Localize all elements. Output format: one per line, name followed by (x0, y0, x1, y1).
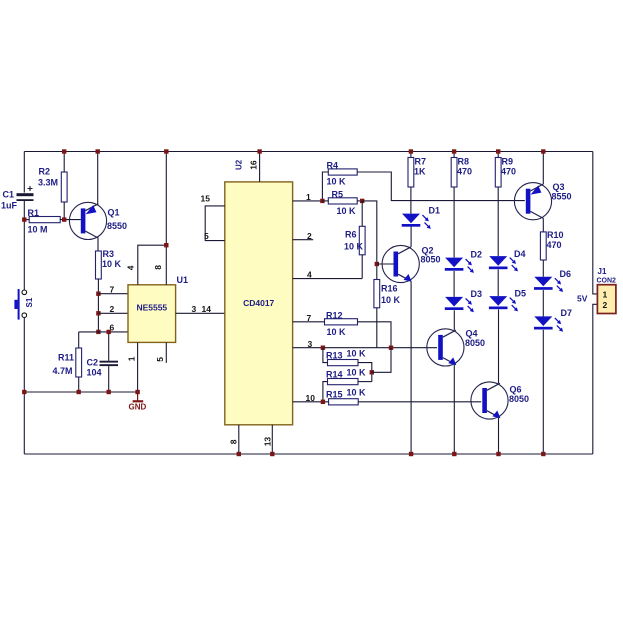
wire R16 bottom lead (376, 308, 378, 348)
wire CD4017 pin3 to Q4 base (293, 347, 437, 349)
wire Q6 emitter to bottom rail (498, 418, 500, 454)
wire D5 to Q6 collector (498, 310, 500, 384)
wire ground rail (24, 391, 137, 393)
wire R10 bottom to D6 (542, 260, 544, 277)
svg-text:5: 5 (155, 357, 165, 362)
node pin3 R13 junction (321, 346, 325, 350)
svg-text:10 M: 10 M (28, 225, 48, 235)
wire R5 node to Q2 base column (362, 201, 377, 280)
wire left border upper segment (23, 152, 25, 193)
node pin1-R4-R5 junction (320, 199, 324, 203)
svg-text:4.7M: 4.7M (53, 366, 73, 376)
svg-text:1: 1 (127, 356, 137, 361)
svg-text:Q1: Q1 (108, 208, 120, 218)
node pin8 rail junction (164, 149, 168, 153)
svg-text:7: 7 (110, 285, 115, 295)
node R2 top rail junction (62, 149, 66, 153)
wire R5 right lead (357, 200, 362, 202)
diode D4 (489, 256, 518, 271)
wire NE5555 pin3 to CD4017 pin14 (176, 312, 225, 314)
svg-text:U2: U2 (235, 159, 244, 170)
svg-text:D3: D3 (471, 289, 483, 299)
svg-text:10 K: 10 K (347, 349, 367, 359)
wire CD4017 pin4 (293, 278, 363, 280)
resistor R15 (329, 399, 359, 405)
wire R12 right lead (358, 322, 392, 348)
svg-text:2: 2 (307, 231, 312, 241)
node Q1 rail junction (96, 149, 100, 153)
node pin13 bottom junction (270, 452, 274, 456)
node Q2 emitter bottom junction (409, 452, 413, 456)
wire NE5555 pin2 (98, 312, 128, 314)
ground symbol (133, 392, 144, 401)
svg-text:2: 2 (110, 304, 115, 314)
svg-text:D2: D2 (471, 250, 483, 260)
diode D3 (445, 297, 474, 312)
svg-text:GND: GND (129, 403, 147, 412)
wire R8 bottom to D2 (453, 187, 455, 258)
op-amp U1 NE5555 body (128, 285, 176, 343)
wire R11 top lead (78, 332, 80, 348)
svg-text:U1: U1 (177, 275, 189, 285)
wire R9 top lead (497, 152, 499, 158)
capacitor C1 (17, 186, 34, 201)
svg-text:5V: 5V (577, 294, 588, 304)
node pin3 branch junction (389, 346, 393, 350)
wire R4 right to Q3 base (357, 172, 525, 201)
wire R14 right lead (358, 381, 372, 383)
resistor R5 (328, 198, 357, 204)
resistor R13 (328, 360, 359, 366)
node Q2 base junction (375, 262, 379, 266)
wire left border lower segment (23, 317, 25, 454)
svg-text:10 K: 10 K (327, 327, 347, 337)
wire R11 bottom lead (78, 377, 80, 392)
node Q6 emitter bottom junction (496, 452, 500, 456)
wire R1 right lead / Q1 base wire (60, 219, 81, 221)
svg-text:D5: D5 (515, 289, 527, 299)
wire R8 top lead (453, 152, 455, 158)
svg-text:R16: R16 (381, 284, 398, 294)
transistor Q2 (382, 245, 419, 282)
svg-text:7: 7 (307, 313, 312, 323)
svg-text:4: 4 (307, 270, 312, 280)
svg-text:CD4017: CD4017 (243, 298, 274, 308)
wire CD4017 pin1 (293, 200, 323, 202)
resistor R10 (540, 232, 546, 260)
wire CD4017 pin13 to bottom rail (271, 425, 273, 454)
wire R1 left lead (24, 219, 29, 221)
wire Q1 emitter to top rail (97, 152, 99, 204)
node Q3 rail junction (541, 149, 545, 153)
svg-text:16: 16 (249, 160, 259, 170)
svg-text:R8: R8 (458, 157, 470, 167)
diode D7 (534, 316, 563, 331)
svg-text:3: 3 (192, 304, 197, 314)
node pin7 junction (96, 292, 100, 296)
svg-text:D7: D7 (561, 308, 573, 318)
svg-text:D4: D4 (514, 249, 526, 259)
svg-text:470: 470 (457, 167, 472, 177)
svg-text:Q6: Q6 (510, 385, 522, 395)
node R5 right junction (360, 199, 364, 203)
wire NE5555 pin8 to rail (165, 152, 167, 285)
counter U2 CD4017 body (225, 182, 293, 425)
svg-text:R10: R10 (547, 230, 564, 240)
wire left border middle segment (23, 201, 25, 290)
svg-text:8: 8 (153, 265, 163, 270)
node pin1 ground junction (135, 390, 139, 394)
wire NE5555 pin7 (98, 293, 128, 295)
diode D5 (489, 296, 518, 311)
svg-text:R11: R11 (58, 353, 74, 363)
svg-text:S1: S1 (25, 297, 34, 307)
node pin6 junction (96, 330, 100, 334)
wire right border lower segment (593, 304, 598, 454)
transistor Q3 (514, 183, 551, 220)
resistor R1 (29, 217, 60, 223)
svg-text:Q4: Q4 (466, 329, 478, 339)
node C2 ground junction (107, 390, 111, 394)
svg-text:R9: R9 (502, 157, 514, 167)
wire Q3 emitter to rail (542, 152, 544, 185)
svg-text:CON2: CON2 (597, 278, 617, 285)
svg-text:10 K: 10 K (347, 368, 367, 378)
svg-text:10 K: 10 K (337, 206, 357, 216)
wire NE5555 pin4 (138, 245, 167, 285)
wire D7 to bottom rail (542, 330, 544, 454)
node Q4 emitter bottom junction (452, 452, 456, 456)
resistor R16 (374, 280, 380, 308)
wire Q3 collector to R10 (542, 218, 544, 232)
node R9 rail junction (496, 149, 500, 153)
wire Q1 collector to R3 (97, 238, 99, 251)
svg-text:10 K: 10 K (102, 259, 122, 269)
wire C2 bottom lead (108, 366, 110, 392)
svg-text:8550: 8550 (552, 192, 572, 202)
wire bottom rail (24, 453, 593, 455)
svg-text:NE5555: NE5555 (136, 303, 167, 313)
svg-text:8550: 8550 (107, 221, 127, 231)
svg-text:8050: 8050 (421, 255, 441, 265)
svg-text:C2: C2 (87, 358, 99, 368)
capacitor C2 (100, 361, 119, 366)
svg-text:4: 4 (126, 265, 136, 270)
svg-text:Q3: Q3 (553, 182, 565, 192)
wire CD4017 pin16 to rail (259, 152, 261, 182)
resistor R11 (76, 348, 82, 377)
wire R7 top lead (410, 152, 412, 158)
svg-text:R12: R12 (326, 311, 343, 321)
svg-text:10 K: 10 K (381, 295, 401, 305)
node C2 top junction (107, 330, 111, 334)
resistor R14 (328, 379, 359, 385)
diode D6 (534, 277, 563, 292)
wire CD4017 pin15 to pin5 loop (205, 206, 225, 241)
wire Q2 emitter to bottom rail (410, 281, 412, 454)
wire Q2 base (377, 263, 394, 265)
svg-text:1K: 1K (414, 167, 426, 177)
connector J1 body (597, 285, 616, 314)
svg-text:3: 3 (308, 339, 313, 349)
svg-text:C1: C1 (3, 190, 15, 200)
wire right border upper segment (593, 152, 598, 294)
node R8 rail junction (452, 149, 456, 153)
wire CD4017 pin10 (293, 401, 329, 403)
resistor R12 (325, 319, 358, 325)
svg-text:10 K: 10 K (344, 242, 364, 252)
wire D4 to D5 (497, 270, 499, 297)
svg-text:10 K: 10 K (327, 177, 347, 187)
svg-text:2: 2 (603, 300, 608, 310)
svg-text:R13: R13 (326, 351, 343, 361)
svg-text:R1: R1 (28, 208, 40, 218)
node ground rail left junction (22, 390, 26, 394)
node R1-R2-Q1 base junction (62, 217, 66, 221)
svg-text:1: 1 (603, 290, 608, 300)
node R7 rail junction (409, 149, 413, 153)
svg-text:R6: R6 (345, 230, 357, 240)
wire R15 right to Q6 base (358, 401, 481, 403)
resistor R9 (495, 158, 501, 188)
wire R9 bottom to D4 (497, 187, 499, 256)
wire R14 left lead (323, 382, 328, 402)
node pin10 R14 junction (321, 400, 325, 404)
svg-text:R3: R3 (103, 249, 115, 259)
wire R3 bottom to pin6 node (97, 279, 99, 332)
wire R6 top lead (361, 201, 363, 226)
transistor Q6 (471, 382, 508, 419)
svg-text:R2: R2 (39, 167, 51, 177)
svg-text:1uF: 1uF (1, 201, 18, 211)
node C1-R1 junction (22, 217, 26, 221)
resistor R3 (96, 251, 102, 279)
resistor R4 (328, 169, 357, 175)
node R11 ground junction (77, 390, 81, 394)
wire R2 top lead (63, 152, 65, 173)
node pin2 junction (96, 311, 100, 315)
svg-text:470: 470 (501, 167, 516, 177)
wire R13 right lead (358, 363, 372, 382)
svg-text:R14: R14 (326, 370, 343, 380)
wire R6 bottom lead (361, 255, 363, 279)
svg-text:1: 1 (306, 192, 311, 202)
wire C2 top lead (108, 332, 110, 361)
node R13-R14 right junction (370, 370, 374, 374)
wire CD4017 pin7 (293, 321, 325, 323)
wire R7 bottom to D1 (410, 187, 412, 214)
svg-text:8050: 8050 (465, 338, 485, 348)
node D7 bottom junction (541, 452, 545, 456)
resistor R7 (408, 158, 414, 188)
wire R2 bottom lead (63, 202, 65, 220)
resistor R6 (359, 226, 365, 255)
svg-text:8050: 8050 (509, 394, 529, 404)
wire R5 left lead (322, 200, 328, 202)
wire top supply rail (24, 151, 593, 153)
wire NE5555 pin5 stub (165, 342, 167, 363)
svg-text:3.3M: 3.3M (38, 178, 58, 188)
wire D2 to D3 (453, 271, 455, 297)
svg-text:470: 470 (547, 240, 562, 250)
node pin4-pin8 junction (164, 243, 168, 247)
node pin16 rail junction (257, 149, 261, 153)
svg-text:R5: R5 (332, 190, 344, 200)
transistor Q4 (427, 329, 464, 366)
resistor R2 (61, 172, 67, 202)
switch S1 (14, 289, 26, 320)
diode D1 (402, 214, 431, 229)
wire R13 left lead (323, 348, 328, 363)
svg-text:J1: J1 (598, 267, 607, 276)
transistor Q1 (69, 202, 106, 239)
wire Q4 emitter to bottom rail (453, 365, 455, 454)
wire CD4017 pin8 to bottom rail (238, 425, 240, 454)
svg-text:14: 14 (202, 304, 212, 314)
svg-text:5: 5 (204, 231, 209, 241)
svg-text:D1: D1 (429, 206, 441, 216)
wire branch junction link (372, 348, 391, 373)
svg-text:R15: R15 (326, 390, 343, 400)
svg-text:D6: D6 (560, 269, 572, 279)
svg-text:15: 15 (201, 194, 211, 204)
svg-text:10: 10 (306, 393, 316, 403)
wire NE5555 pin6 (79, 331, 128, 333)
wire Q2 collector to D1 (410, 226, 412, 246)
svg-text:10 K: 10 K (347, 388, 367, 398)
wire D6 to D7 (542, 290, 544, 316)
svg-text:13: 13 (263, 437, 273, 447)
wire R4 left lead (322, 172, 328, 201)
svg-text:8: 8 (229, 439, 239, 444)
wire NE5555 pin1 to ground (137, 342, 139, 392)
svg-text:104: 104 (87, 368, 102, 378)
diode D2 (445, 258, 474, 273)
wire D3 to Q4 collector (453, 310, 455, 330)
svg-text:R4: R4 (327, 161, 339, 171)
svg-text:R7: R7 (415, 157, 427, 167)
resistor R8 (451, 158, 457, 188)
node pin8 bottom junction (237, 452, 241, 456)
wire CD4017 pin2 stub (293, 239, 314, 241)
